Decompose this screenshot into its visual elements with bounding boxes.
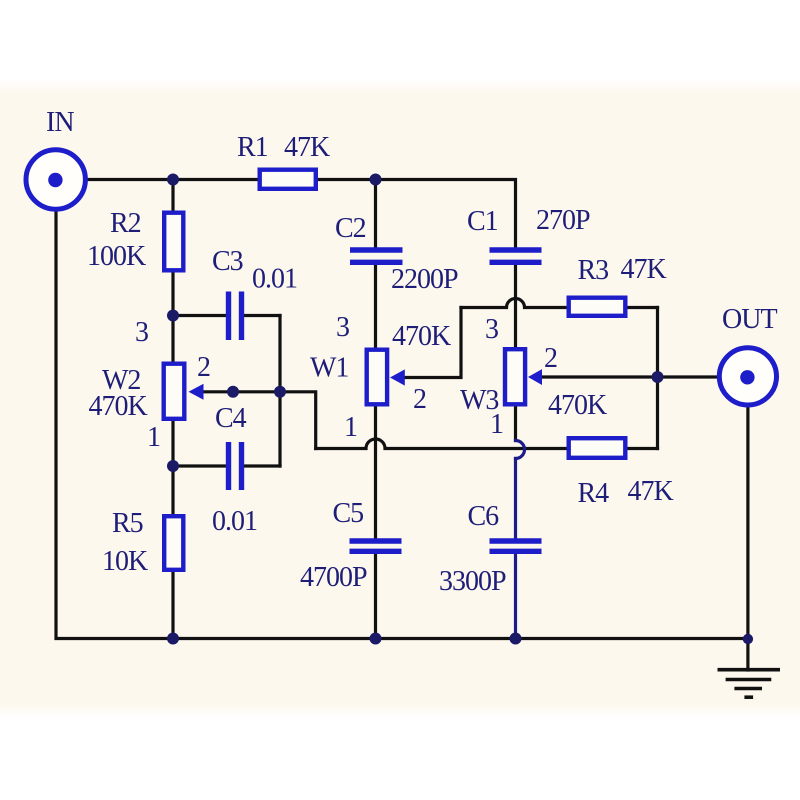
svg-text:C6: C6 [468,501,500,532]
svg-text:R1: R1 [237,132,268,163]
svg-text:2: 2 [197,352,210,383]
svg-text:R4: R4 [578,478,610,509]
svg-text:47K: 47K [628,476,674,507]
svg-text:0.01: 0.01 [212,506,257,537]
svg-text:C2: C2 [335,213,366,244]
svg-text:1: 1 [490,409,503,440]
svg-text:1: 1 [147,422,160,453]
svg-text:1: 1 [344,412,357,443]
svg-text:C3: C3 [212,246,243,277]
svg-text:100K: 100K [87,241,146,272]
svg-text:3: 3 [485,314,498,345]
svg-text:C5: C5 [333,498,364,529]
svg-text:0.01: 0.01 [252,264,297,295]
svg-text:270P: 270P [536,205,590,236]
svg-text:R3: R3 [578,255,609,286]
svg-text:IN: IN [46,107,74,138]
svg-text:4700P: 4700P [300,562,367,593]
svg-text:OUT: OUT [722,304,777,335]
svg-text:2: 2 [544,343,557,374]
svg-text:W1: W1 [310,353,348,384]
svg-text:R2: R2 [110,208,141,239]
svg-text:10K: 10K [102,546,148,577]
svg-text:C1: C1 [467,206,498,237]
svg-text:470K: 470K [89,391,148,422]
svg-text:47K: 47K [621,254,667,285]
svg-text:3: 3 [336,312,349,343]
svg-text:470K: 470K [392,321,451,352]
svg-text:2200P: 2200P [391,264,458,295]
svg-text:47K: 47K [284,132,330,163]
svg-text:R5: R5 [112,508,143,539]
svg-text:3300P: 3300P [439,566,506,597]
svg-text:470K: 470K [548,390,607,421]
svg-text:C4: C4 [215,403,247,434]
svg-text:3: 3 [135,317,148,348]
svg-text:2: 2 [413,384,426,415]
